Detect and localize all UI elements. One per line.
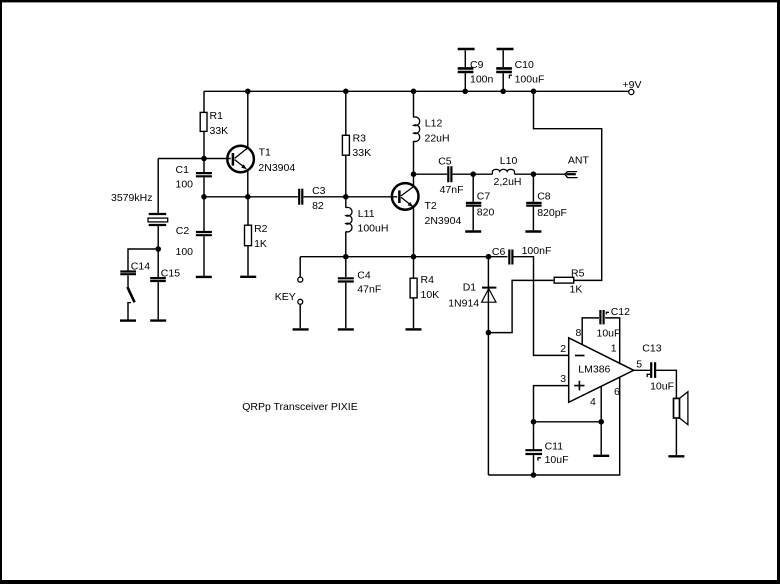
capacitor C12 (597, 306, 631, 340)
antenna ANT (565, 154, 590, 177)
svg-text:C14: C14 (131, 260, 150, 272)
ground C8 (525, 230, 541, 232)
svg-text:33K: 33K (352, 147, 371, 159)
svg-text:100nF: 100nF (522, 245, 552, 257)
svg-text:L10: L10 (500, 155, 518, 167)
ground C2 (196, 276, 212, 278)
node D1 top junction (486, 254, 492, 260)
switch lever (127, 287, 134, 303)
inductor L10 (492, 155, 521, 188)
resistor R3 (342, 133, 371, 159)
crystal X1 3579kHz (111, 192, 168, 225)
ground KEY (293, 328, 309, 330)
svg-text:1N914: 1N914 (448, 297, 479, 309)
svg-text:2,2uH: 2,2uH (494, 176, 522, 188)
svg-text:10uF: 10uF (650, 380, 674, 392)
capacitor C14 (120, 260, 150, 274)
wire C11 column (533, 422, 535, 475)
ground C14 (120, 319, 136, 321)
node rail branch (531, 89, 537, 95)
wire pin8 C12 loop (582, 318, 620, 364)
wire bottom loop pin6 (488, 378, 619, 476)
svg-text:LM386: LM386 (578, 364, 610, 376)
svg-text:820pF: 820pF (537, 207, 567, 219)
wire T2 collector (413, 174, 415, 185)
node T2 emitter-R4 junction (411, 254, 417, 260)
wire R5 left to D1 (488, 280, 553, 332)
node pin4 junction (598, 419, 604, 425)
svg-text:C6: C6 (492, 246, 506, 258)
capacitor C1 (176, 164, 212, 190)
svg-text:C5: C5 (438, 155, 452, 167)
ground C4 (338, 328, 354, 330)
node C2-C3 junction (201, 194, 207, 200)
svg-text:22uH: 22uH (425, 132, 450, 144)
wire bottom row y256.7 (300, 257, 569, 356)
resistor R2 (245, 223, 268, 250)
speaker LS1 (674, 392, 688, 425)
svg-text:L12: L12 (425, 118, 443, 130)
node C8 top junction (531, 171, 537, 177)
wire +9V to R5 branch (534, 91, 602, 280)
wire C14 branch (128, 249, 158, 320)
svg-text:1K: 1K (254, 238, 267, 250)
ground R2 (240, 276, 256, 278)
wire D1 column (487, 257, 489, 475)
svg-text:100uH: 100uH (358, 223, 389, 235)
svg-text:3: 3 (560, 373, 566, 385)
svg-text:5: 5 (636, 358, 642, 370)
ground C7 (465, 230, 481, 232)
wire base row y196.8 (204, 196, 397, 198)
node L11-C4 junction (343, 254, 349, 260)
key terminals KEY (275, 277, 303, 304)
capacitor C3 (299, 185, 325, 212)
wire +9V rail (204, 90, 629, 92)
svg-text:1: 1 (611, 342, 617, 354)
ground R4 (406, 328, 422, 330)
node rail L12 (411, 89, 417, 95)
node +9V terminal (623, 79, 642, 95)
node T1 emitter junction (245, 194, 251, 200)
capacitor C13 (642, 343, 674, 393)
svg-text:100uF: 100uF (515, 73, 545, 85)
wire KEY branch (299, 257, 301, 329)
svg-text:C7: C7 (477, 191, 491, 203)
svg-text:C10: C10 (515, 59, 534, 71)
capacitor C10 (496, 49, 544, 91)
svg-text:L11: L11 (358, 208, 375, 220)
wire pin3 branch (534, 386, 569, 422)
svg-text:C2: C2 (176, 225, 190, 237)
ground speaker (668, 455, 684, 457)
wire T2 emitter (413, 208, 415, 257)
svg-text:33K: 33K (210, 125, 229, 137)
svg-text:4: 4 (590, 396, 596, 408)
svg-text:KEY: KEY (275, 291, 296, 303)
svg-text:R3: R3 (353, 133, 367, 145)
node T2 collector junction (411, 171, 417, 177)
svg-text:C15: C15 (161, 267, 180, 279)
wire T1 base (158, 158, 231, 160)
svg-text:2N3904: 2N3904 (425, 215, 462, 227)
diode D1 1N914 (448, 281, 496, 309)
wire y421.8 row (534, 421, 602, 423)
svg-text:2: 2 (560, 343, 566, 355)
svg-text:ANT: ANT (568, 154, 590, 166)
node D1 bottom junction (486, 330, 492, 336)
capacitor C2 (176, 225, 212, 258)
wire R3 column (345, 91, 347, 197)
node C11 top junction (531, 419, 537, 425)
svg-text:+9V: +9V (623, 79, 642, 91)
svg-text:47nF: 47nF (440, 184, 464, 196)
resistor R5 (554, 267, 584, 295)
svg-text:10uF: 10uF (597, 328, 621, 340)
svg-text:100: 100 (176, 179, 194, 191)
ground C15 (150, 319, 166, 321)
capacitor C7 (466, 174, 495, 230)
wire T1 emitter (247, 170, 249, 197)
svg-text:C1: C1 (176, 164, 190, 176)
svg-text:T1: T1 (259, 146, 271, 158)
node base junction (201, 156, 207, 162)
inductor L12 (414, 91, 450, 174)
ground pin4 (593, 455, 609, 457)
wire crystal column (157, 159, 159, 320)
wire R4 column (413, 257, 415, 329)
svg-text:10uF: 10uF (545, 454, 569, 466)
svg-text:C11: C11 (545, 440, 564, 452)
wire C5 row y174.2 (414, 173, 565, 175)
svg-text:8: 8 (576, 327, 582, 339)
svg-text:T2: T2 (425, 200, 437, 212)
node rail C10 (500, 89, 506, 95)
svg-text:C3: C3 (312, 185, 326, 197)
svg-text:R5: R5 (571, 267, 585, 279)
resistor R4 (410, 274, 439, 301)
svg-text:C4: C4 (357, 270, 371, 282)
wire T1 collector (247, 91, 249, 147)
svg-text:C9: C9 (470, 59, 484, 71)
inductor L11 (346, 197, 389, 257)
node rail R3 (343, 89, 349, 95)
transistor T1 2N3904 (227, 146, 295, 175)
transistor T2 2N3904 (392, 183, 462, 227)
svg-text:C8: C8 (537, 191, 551, 203)
svg-text:47nF: 47nF (357, 283, 381, 295)
resistor R1 (200, 110, 228, 137)
svg-text:100n: 100n (470, 73, 494, 85)
wire pin5 output (634, 370, 677, 455)
svg-text:1K: 1K (570, 284, 583, 296)
capacitor C6 (492, 245, 551, 265)
capacitor C15 (150, 267, 180, 281)
capacitor C5 (438, 155, 463, 196)
op-amp U1 LM386 (569, 338, 634, 403)
svg-text:R1: R1 (210, 110, 224, 122)
svg-text:10K: 10K (421, 289, 440, 301)
svg-text:820: 820 (477, 207, 495, 219)
svg-text:D1: D1 (463, 281, 477, 293)
capacitor C8 (526, 174, 567, 230)
node rail T1 (245, 89, 251, 95)
wire R1 column (203, 91, 205, 276)
node rail C9 (462, 89, 468, 95)
svg-text:C12: C12 (611, 306, 630, 318)
node C7 top junction (470, 171, 476, 177)
svg-text:C13: C13 (642, 343, 661, 355)
svg-text:100: 100 (176, 246, 194, 258)
svg-text:2N3904: 2N3904 (258, 162, 295, 174)
svg-text:82: 82 (312, 200, 324, 212)
node L11 top junction (343, 194, 349, 200)
wire pin4 ground column (600, 387, 602, 455)
wire R2 column (247, 197, 249, 276)
capacitor C9 (458, 49, 494, 91)
capacitor C11 (525, 440, 568, 466)
svg-text:R2: R2 (254, 223, 268, 235)
svg-text:R4: R4 (421, 274, 435, 286)
node C11 bottom junction (531, 472, 537, 478)
node crystal junction (155, 246, 161, 252)
capacitor C4 (338, 257, 381, 329)
svg-text:3579kHz: 3579kHz (111, 192, 152, 204)
svg-text:QRPp Transceiver PIXIE: QRPp Transceiver PIXIE (242, 401, 358, 413)
